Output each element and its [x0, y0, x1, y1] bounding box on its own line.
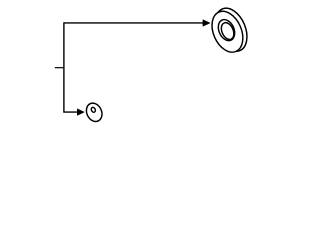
grommet (small, bottom): [84, 101, 105, 124]
grommet body: [84, 101, 105, 124]
seal bore rim: [215, 17, 238, 43]
grommet hole: [91, 107, 97, 113]
arrowhead to seal: [203, 20, 210, 27]
seal front face: [206, 6, 249, 57]
seal ring (large, top right): [206, 3, 253, 57]
arrowhead to grommet: [77, 109, 84, 116]
node tick: [55, 67, 64, 69]
seal bore inner lip: [219, 21, 236, 42]
wire leader bracket: [64, 23, 203, 112]
seal back rim: [209, 3, 253, 56]
